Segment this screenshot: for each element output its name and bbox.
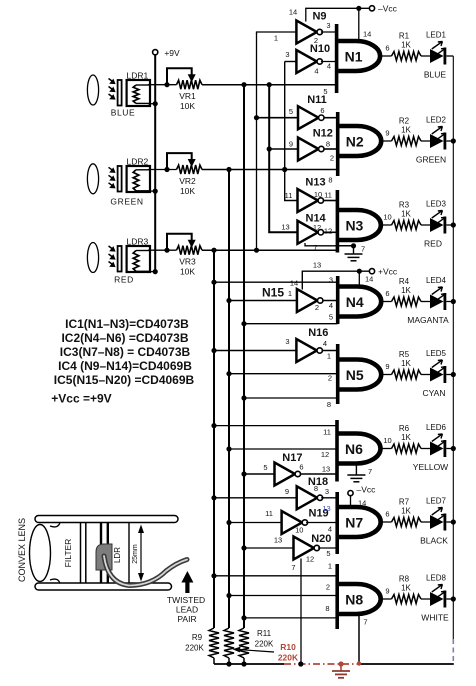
- node N17/C junction: [241, 471, 246, 476]
- wire +Vcc to IC5 pin 14: [302, 271, 369, 289]
- wire N4 pin5 from bus C: [244, 323, 338, 325]
- wire N6 output: [381, 448, 392, 450]
- AND gate N1: [335, 24, 339, 93]
- LED LED7: [430, 515, 444, 529]
- wire bottom ground rail red dashed: [284, 663, 359, 665]
- terminal -Vcc top: [369, 6, 374, 11]
- svg-text:LEAD: LEAD: [176, 605, 198, 615]
- wire N2 output: [381, 140, 391, 142]
- node LED8 rail junction: [451, 596, 456, 601]
- svg-text:6: 6: [385, 289, 389, 298]
- LDR3 body: [127, 246, 150, 272]
- svg-text:4: 4: [323, 339, 327, 348]
- svg-text:8: 8: [326, 140, 330, 149]
- svg-text:2: 2: [330, 154, 334, 163]
- svg-text:N9: N9: [312, 11, 326, 23]
- svg-text:10K: 10K: [180, 267, 195, 277]
- svg-text:1K: 1K: [401, 584, 411, 593]
- svg-text:2: 2: [315, 303, 319, 312]
- svg-text:10: 10: [295, 526, 303, 535]
- LDR body blob: [96, 544, 112, 570]
- inverter N16: [296, 339, 317, 362]
- svg-text:25mm: 25mm: [132, 544, 139, 564]
- wire LDR2 top lead: [148, 169, 177, 171]
- wire LED2 cathode to rail: [446, 140, 453, 142]
- twisted pair cable: [104, 556, 187, 586]
- wire LED4 cathode to rail: [446, 301, 453, 303]
- wire N19 input: [229, 522, 282, 524]
- svg-text:9: 9: [289, 140, 293, 149]
- wire LED cathode rail: [452, 56, 454, 639]
- svg-text:VR3: VR3: [179, 257, 196, 267]
- wire LED1 cathode to rail: [446, 55, 453, 57]
- svg-text:7: 7: [368, 467, 372, 476]
- svg-text:+9V: +9V: [164, 48, 180, 58]
- svg-text:N12: N12: [313, 128, 333, 140]
- wire N8 pin8 from bus C: [244, 617, 337, 619]
- wire N12 input: [269, 148, 298, 150]
- svg-text:R4: R4: [399, 277, 410, 286]
- LED LED1: [430, 49, 444, 63]
- svg-text:6: 6: [299, 463, 303, 472]
- svg-text:9: 9: [285, 487, 289, 496]
- svg-text:LDR3: LDR3: [127, 237, 149, 247]
- wire N19 output: [306, 522, 337, 524]
- wire R8 to LED8: [421, 598, 430, 600]
- wire LDR1 top lead: [148, 84, 177, 86]
- svg-text:R7: R7: [399, 498, 410, 507]
- wire N15 output: [323, 300, 338, 302]
- wire N5 output: [381, 374, 391, 376]
- potentiometer VR3: [177, 246, 203, 255]
- filter plates: [80, 523, 82, 584]
- svg-text:WHITE: WHITE: [421, 613, 449, 623]
- svg-text:1: 1: [274, 34, 278, 43]
- node +Vcc junction: [357, 269, 362, 274]
- svg-text:10: 10: [383, 213, 391, 222]
- svg-text:N20: N20: [311, 533, 331, 545]
- svg-text:BLACK: BLACK: [420, 536, 448, 546]
- wire N10 input: [285, 61, 297, 63]
- svg-text:2: 2: [328, 374, 332, 383]
- svg-text:+Vcc: +Vcc: [378, 267, 398, 277]
- svg-text:IC1(N1–N3)=CD4073B: IC1(N1–N3)=CD4073B: [65, 317, 189, 331]
- inverter N11: [298, 106, 319, 129]
- potentiometer VR2: [177, 165, 203, 174]
- svg-text:9: 9: [385, 362, 389, 371]
- wire LED8 cathode to rail: [446, 598, 453, 600]
- svg-text:IC4 (N9–N14)=CD4069B: IC4 (N9–N14)=CD4069B: [58, 359, 192, 373]
- node junction VR3 wiper: [164, 248, 169, 253]
- LED LED2: [430, 134, 444, 148]
- LED LED6: [430, 442, 444, 456]
- svg-text:TWISTED: TWISTED: [167, 595, 205, 605]
- wire N17 output: [300, 473, 337, 475]
- svg-text:R3: R3: [399, 201, 410, 210]
- wire N9 output: [321, 31, 337, 33]
- AND gate N2: [336, 112, 340, 176]
- wire N20 output: [318, 547, 337, 549]
- wire N4 pin3 from bus A: [214, 281, 338, 283]
- node red junction: [338, 661, 343, 666]
- wire N8 output: [381, 598, 392, 600]
- node VR3/A junction: [211, 248, 216, 253]
- wire N8 pin2 from bus B: [229, 595, 337, 597]
- inverter N19: [282, 511, 303, 534]
- svg-text:9: 9: [385, 587, 389, 596]
- AND gate N6: [335, 420, 339, 482]
- wire N4 output: [381, 301, 391, 303]
- svg-text:7: 7: [361, 245, 365, 254]
- svg-text:4: 4: [327, 62, 331, 71]
- wire VR3 output to N3: [202, 249, 337, 251]
- svg-text:N5: N5: [346, 367, 364, 383]
- wire N7 output: [381, 521, 392, 523]
- resistor R11 220K: [239, 628, 249, 658]
- node LED7 rail junction: [451, 519, 456, 524]
- tube bottom rail: [35, 583, 172, 590]
- node N8pin8/C junction: [241, 615, 246, 620]
- svg-text:LED4: LED4: [426, 276, 447, 285]
- svg-text:10: 10: [314, 190, 322, 199]
- svg-text:5: 5: [323, 87, 327, 96]
- svg-text:220K: 220K: [255, 640, 274, 649]
- node bus D to N9/N11 inputs: [256, 33, 258, 250]
- inverter N17: [275, 463, 296, 486]
- node -Vcc junction: [356, 6, 361, 11]
- svg-text:4: 4: [314, 67, 318, 76]
- svg-text:13: 13: [281, 223, 289, 232]
- svg-text:N16: N16: [308, 327, 328, 339]
- svg-text:LDR1: LDR1: [127, 71, 149, 81]
- svg-text:PAIR: PAIR: [177, 614, 196, 624]
- svg-text:8: 8: [325, 604, 329, 613]
- svg-text:R5: R5: [399, 350, 410, 359]
- node N15/B junction: [226, 298, 231, 303]
- node N16/A junction: [211, 348, 216, 353]
- ground below N6: [355, 464, 357, 476]
- svg-text:IC2(N4–N6) =CD4073B: IC2(N4–N6) =CD4073B: [61, 331, 188, 345]
- svg-text:3: 3: [285, 50, 289, 59]
- svg-text:N6: N6: [345, 441, 363, 457]
- LDR3 electrode bar: [118, 246, 122, 272]
- convex lens body: [30, 525, 51, 582]
- svg-text:BLUE: BLUE: [111, 108, 136, 118]
- LDR2 light arrows: [109, 167, 115, 171]
- LED LED5: [430, 368, 444, 382]
- LDR2 body: [127, 166, 150, 192]
- svg-text:LED3: LED3: [426, 200, 447, 209]
- LDR1 electrode bar: [118, 80, 122, 106]
- wire N11 output: [324, 117, 338, 119]
- +9V supply terminal: [153, 50, 158, 55]
- ground bottom (red): [340, 664, 342, 671]
- svg-text:10: 10: [383, 436, 391, 445]
- svg-text:6: 6: [385, 44, 389, 53]
- svg-text:N4: N4: [346, 294, 364, 310]
- svg-text:N7: N7: [345, 514, 363, 530]
- svg-text:LDR: LDR: [113, 547, 122, 563]
- node N5pin8/C junction: [241, 395, 246, 400]
- AND gate N7: [335, 492, 339, 554]
- inverter N12: [298, 138, 319, 161]
- resistor R9 220K: [209, 628, 219, 658]
- LED LED8: [430, 592, 444, 606]
- svg-text:3: 3: [329, 276, 333, 285]
- wire N5 pin2 from bus B: [229, 373, 338, 375]
- wire IC4 pin 7 ground stub: [305, 243, 354, 246]
- node N20/C junction: [241, 545, 246, 550]
- svg-text:4: 4: [329, 301, 333, 310]
- svg-text:11: 11: [285, 191, 293, 200]
- node LED4 rail junction: [451, 299, 456, 304]
- wire N15 input: [229, 300, 297, 302]
- svg-text:2: 2: [326, 583, 330, 592]
- node LED5 rail junction: [451, 372, 456, 377]
- svg-text:10K: 10K: [180, 186, 195, 196]
- svg-text:7: 7: [313, 243, 317, 252]
- wire VR2 wiper loop: [167, 153, 192, 169]
- svg-text:12: 12: [306, 555, 314, 564]
- node N8pin1/A junction: [211, 573, 216, 578]
- svg-text:11: 11: [323, 428, 331, 437]
- LDR1 lens: [87, 75, 98, 105]
- svg-text:R10: R10: [280, 642, 296, 652]
- wire R3 to LED3: [421, 224, 430, 226]
- potentiometer VR1: [177, 80, 203, 89]
- svg-text:9: 9: [385, 129, 389, 138]
- svg-text:3: 3: [325, 487, 329, 496]
- svg-text:220K: 220K: [278, 653, 299, 663]
- svg-text:1: 1: [328, 562, 332, 571]
- svg-text:IC5(N15–N20) =CD4069B: IC5(N15–N20) =CD4069B: [54, 373, 195, 387]
- svg-text:N2: N2: [346, 133, 364, 149]
- inverter N18: [297, 486, 318, 509]
- terminal -Vcc mid: [348, 491, 353, 496]
- wire N20 input: [244, 547, 294, 549]
- wire VR2 output to N2: [202, 169, 338, 171]
- svg-text:1K: 1K: [401, 433, 411, 442]
- svg-text:11: 11: [265, 509, 273, 518]
- wire LED3 cathode to rail: [446, 224, 453, 226]
- node VR3/D junction: [254, 248, 259, 253]
- svg-text:12: 12: [313, 223, 321, 232]
- resistor R1 1K: [392, 52, 422, 61]
- svg-text:LED5: LED5: [426, 349, 447, 358]
- svg-text:GREEN: GREEN: [416, 155, 446, 165]
- wire N16 output: [323, 350, 338, 352]
- LDR2 lens: [87, 164, 98, 194]
- AND gate N4: [336, 276, 340, 324]
- resistor R4 1K: [392, 297, 422, 306]
- wire LDR3 bottom lead: [148, 271, 155, 273]
- wire N5 pin8 from bus C: [244, 397, 338, 399]
- svg-text:CONVEX LENS: CONVEX LENS: [17, 518, 27, 582]
- svg-text:R9: R9: [192, 633, 203, 642]
- wire N9 input: [257, 32, 297, 34]
- wire N8 pin1 from bus A: [214, 575, 337, 577]
- wire R2 to LED2: [421, 140, 430, 142]
- wire R4 to LED4: [421, 301, 430, 303]
- svg-text:10K: 10K: [180, 101, 195, 111]
- svg-text:1K: 1K: [401, 359, 411, 368]
- node junction LDR3/rail: [153, 269, 158, 274]
- node N11/D junction: [254, 115, 259, 120]
- node bus B (VR2 green signal): [228, 170, 230, 629]
- wire LED7 cathode to rail: [446, 521, 453, 523]
- svg-text:220K: 220K: [185, 644, 204, 653]
- wire LDR1 bottom lead: [148, 103, 155, 105]
- svg-text:–Vcc: –Vcc: [378, 4, 398, 14]
- svg-text:14: 14: [363, 30, 371, 39]
- tube top rail: [35, 516, 178, 523]
- LDR3 lens: [87, 243, 98, 273]
- svg-text:N13: N13: [305, 177, 325, 189]
- svg-text:6: 6: [320, 106, 324, 115]
- svg-text:MAGANTA: MAGANTA: [407, 315, 449, 325]
- svg-text:14: 14: [358, 499, 366, 508]
- terminal +Vcc: [369, 269, 374, 274]
- svg-text:R11: R11: [257, 629, 272, 638]
- svg-text:R6: R6: [399, 424, 410, 433]
- svg-text:1: 1: [327, 352, 331, 361]
- node junction LDR2/rail: [153, 189, 158, 194]
- wire +Vcc to N4 pin 14: [358, 271, 360, 286]
- svg-text:N1: N1: [345, 48, 363, 64]
- ground below N3: [337, 245, 353, 247]
- node N6pin12/B junction: [226, 446, 231, 451]
- resistor R7 1K: [392, 518, 422, 527]
- AND gate N5: [336, 344, 340, 404]
- svg-text:5: 5: [329, 313, 333, 322]
- svg-text:–Vcc: –Vcc: [357, 485, 377, 495]
- wire N6 pin12 from bus B: [229, 448, 337, 450]
- LED LED3: [430, 218, 444, 232]
- node VR2/B junction: [226, 167, 231, 172]
- node LED3 rail junction: [451, 222, 456, 227]
- svg-text:1K: 1K: [401, 286, 411, 295]
- LED LED4: [430, 295, 444, 309]
- wire R5 to LED5: [421, 374, 430, 376]
- svg-text:LED8: LED8: [426, 574, 447, 583]
- node N4pin3/A junction: [211, 280, 216, 285]
- AND gate N3: [336, 190, 340, 253]
- wire rail dashed segment: [452, 639, 454, 662]
- svg-text:6: 6: [385, 510, 389, 519]
- resistor R5 1K: [392, 370, 422, 379]
- svg-text:7: 7: [363, 618, 367, 627]
- wire LDR3 top lead: [148, 249, 177, 251]
- node N18/A junction: [211, 495, 216, 500]
- svg-text:N3: N3: [345, 217, 363, 233]
- svg-text:BLUE: BLUE: [424, 70, 447, 80]
- node N6pin11/A junction: [211, 423, 216, 428]
- inverter N14: [298, 221, 319, 244]
- node bus F to N10/N14 inputs: [285, 62, 298, 201]
- svg-text:13: 13: [313, 261, 321, 270]
- svg-text:8: 8: [328, 176, 332, 185]
- wire R1 to LED1: [421, 55, 430, 57]
- svg-text:1K: 1K: [401, 41, 411, 50]
- svg-text:7: 7: [291, 563, 295, 572]
- svg-text:1: 1: [288, 289, 292, 298]
- node junction VR1 wiper: [164, 82, 169, 87]
- svg-text:8: 8: [314, 484, 318, 493]
- svg-text:RED: RED: [114, 275, 134, 285]
- svg-text:R1: R1: [399, 32, 410, 41]
- svg-text:GREEN: GREEN: [110, 197, 143, 207]
- wire N13 output: [323, 200, 337, 202]
- wire LDR2 bottom lead: [148, 190, 155, 192]
- svg-text:14: 14: [289, 8, 297, 17]
- wire N8 pin 7 drop: [358, 612, 360, 664]
- node bottom rail junctions: [226, 661, 231, 666]
- svg-text:LED7: LED7: [426, 497, 447, 506]
- node N8pin2/B junction: [226, 593, 231, 598]
- svg-text:3: 3: [285, 337, 289, 346]
- svg-text:LED6: LED6: [426, 423, 447, 432]
- AND gate N8: [335, 564, 339, 629]
- node VR1/E junction: [267, 82, 272, 87]
- svg-text:12: 12: [321, 450, 329, 459]
- wire VR1 output to N1: [202, 84, 337, 86]
- svg-text:+Vcc =+9V: +Vcc =+9V: [51, 392, 111, 406]
- wire -Vcc to IC4 pin 14: [306, 8, 370, 21]
- node LED6 rail junction: [451, 446, 456, 451]
- 25mm dimension arrow: [140, 531, 142, 575]
- wire VR1 wiper loop: [167, 68, 192, 84]
- wire LED6 cathode to rail: [446, 448, 453, 450]
- wire N18 output: [321, 497, 337, 499]
- node N12/E junction: [267, 146, 272, 151]
- resistor R10 220K: [224, 628, 234, 658]
- node N19/B junction: [226, 520, 231, 525]
- TWISTED LEAD PAIR arrow: [185, 581, 189, 593]
- wire IC5 pin 7 ground drop: [300, 559, 302, 665]
- wire +9V rail vertical: [154, 55, 156, 272]
- node VR2/F junction: [282, 167, 287, 172]
- svg-text:13: 13: [322, 465, 330, 474]
- wire N11 input: [257, 117, 299, 119]
- node bus C (VR1 blue signal): [243, 85, 245, 628]
- wire LED5 cathode to rail: [446, 374, 453, 376]
- inverter N20: [294, 537, 315, 560]
- node bus A (VR3 red signal): [213, 250, 215, 628]
- resistor R8 1K: [392, 595, 422, 604]
- node LED2 rail junction: [451, 138, 456, 143]
- wire N18 input: [214, 497, 297, 499]
- svg-text:14: 14: [365, 275, 373, 284]
- wire N12 output: [324, 148, 338, 150]
- svg-text:3: 3: [326, 21, 330, 30]
- node N5pin2/B junction: [226, 371, 231, 376]
- svg-text:FILTER: FILTER: [63, 539, 73, 568]
- inverter N9: [296, 21, 317, 44]
- svg-text:13: 13: [274, 536, 282, 545]
- wire -Vcc to N1 pin 14: [358, 8, 360, 40]
- svg-text:1K: 1K: [401, 507, 411, 516]
- svg-text:VR1: VR1: [179, 91, 196, 101]
- svg-text:5: 5: [326, 549, 330, 558]
- svg-text:IC3(N7–N8) = CD4073B: IC3(N7–N8) = CD4073B: [60, 345, 191, 359]
- svg-text:YELLOW: YELLOW: [413, 462, 448, 472]
- inverter N15: [297, 289, 318, 312]
- svg-text:VR2: VR2: [179, 176, 196, 186]
- wire N14 output: [323, 231, 337, 233]
- svg-text:1K: 1K: [401, 210, 411, 219]
- svg-text:N8: N8: [345, 591, 363, 607]
- svg-text:N15: N15: [262, 286, 284, 300]
